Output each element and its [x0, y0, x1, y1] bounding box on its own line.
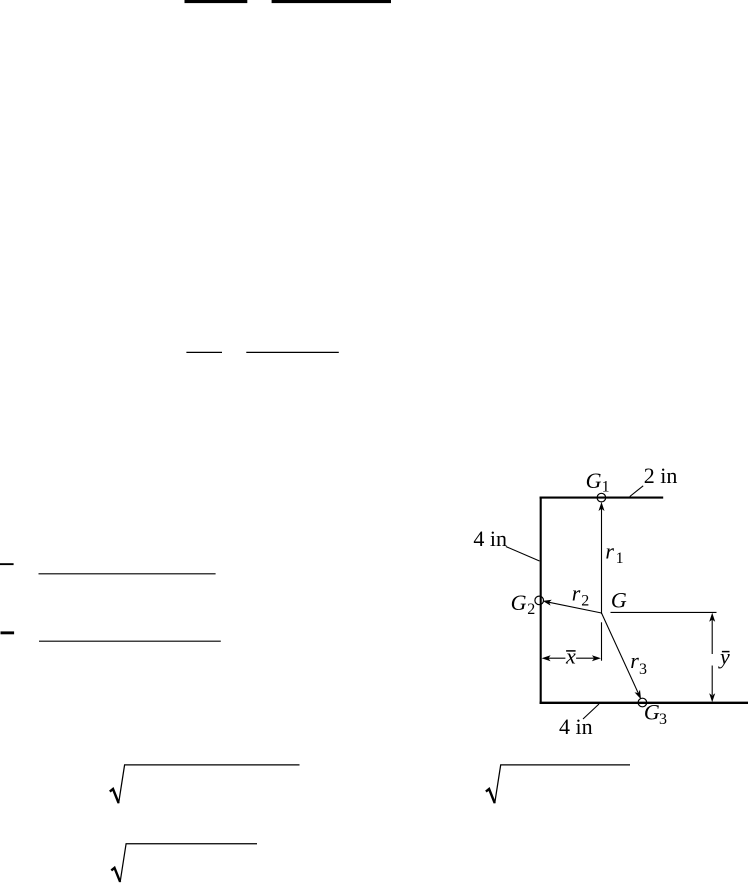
- fraction rule (mid-page equation, right): [246, 351, 338, 353]
- leader line for 4 in top-left label: [506, 547, 540, 562]
- svg-text:r: r: [630, 648, 639, 673]
- extension line below G: [601, 622, 603, 660]
- radical sign 3 (sqrt, bottom): [111, 868, 120, 882]
- svg-text:3: 3: [659, 711, 667, 728]
- dimension ybar line (upper part): [711, 620, 713, 655]
- radical sign 1 (sqrt, mid-bottom left): [110, 789, 119, 803]
- dimension xbar left arrowhead: [542, 655, 551, 661]
- reference line from G to ybar dimension: [611, 611, 717, 613]
- svg-text:2: 2: [527, 601, 535, 618]
- fraction rule (mid-page equation, left): [186, 351, 222, 353]
- dimension ybar bottom arrowhead: [709, 693, 715, 702]
- svg-text:2: 2: [581, 592, 589, 609]
- node G1 circle: [597, 493, 606, 502]
- figure: left web line: [540, 497, 542, 704]
- minus sign bold (left margin, cut off): [1, 631, 15, 634]
- svg-text:4 in: 4 in: [473, 526, 507, 551]
- fraction bar 2 (top of page, cut off): [272, 0, 391, 3]
- figure: bottom flange line: [540, 702, 748, 704]
- fraction rule (left column lower): [39, 640, 221, 642]
- dimension xbar line (left part): [548, 657, 565, 659]
- svg-text:2 in: 2 in: [644, 463, 678, 488]
- svg-text:1: 1: [616, 550, 624, 567]
- leader line for 4 in bottom label: [583, 704, 599, 719]
- svg-text:G: G: [644, 700, 660, 725]
- svg-text:3: 3: [639, 661, 647, 678]
- dimension xbar line (right part): [576, 657, 594, 659]
- svg-text:y: y: [718, 644, 730, 669]
- node G3 circle: [638, 698, 647, 707]
- arrow r3 shaft (G to G3): [602, 613, 639, 693]
- dimension ybar top arrowhead: [709, 613, 715, 622]
- arrow r3 head: [635, 690, 642, 699]
- radical sign 2 (sqrt, mid-bottom right): [486, 789, 495, 803]
- svg-text:r: r: [605, 538, 614, 563]
- minus sign (left margin, cut off): [0, 563, 14, 565]
- leader line for 2 in label: [630, 486, 643, 497]
- dimension ybar line (lower part): [711, 666, 713, 696]
- svg-text:r: r: [572, 581, 581, 606]
- svg-text:1: 1: [602, 479, 610, 496]
- svg-text:x: x: [565, 644, 576, 669]
- fraction rule (left column upper): [39, 573, 216, 575]
- arrow r2 shaft (G to G2): [549, 602, 602, 613]
- svg-text:4 in: 4 in: [559, 714, 593, 739]
- node G2 circle: [535, 596, 544, 605]
- figure: top flange line: [540, 497, 664, 499]
- svg-text:G: G: [611, 588, 627, 613]
- arrow r1 shaft (G up to G1): [601, 508, 603, 614]
- svg-text:G: G: [586, 468, 602, 493]
- fraction bar (top of page, cut off): [185, 0, 248, 3]
- dimension xbar right arrowhead: [592, 655, 601, 661]
- arrow r2 head: [543, 600, 552, 606]
- arrow r1 head: [599, 502, 605, 511]
- svg-text:G: G: [511, 590, 527, 615]
